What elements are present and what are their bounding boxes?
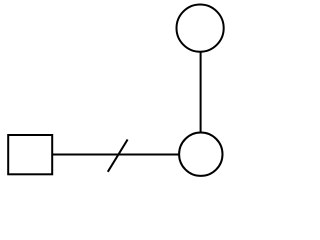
wire: vertical connector from top circle to bottom circle	[200, 52, 202, 133]
circle node (bottom person)	[179, 133, 222, 176]
separation slash across relationship line	[108, 140, 128, 172]
circle node (top person)	[177, 5, 224, 52]
square node (person, left)	[8, 135, 52, 174]
wire: horizontal relationship line	[53, 154, 180, 156]
